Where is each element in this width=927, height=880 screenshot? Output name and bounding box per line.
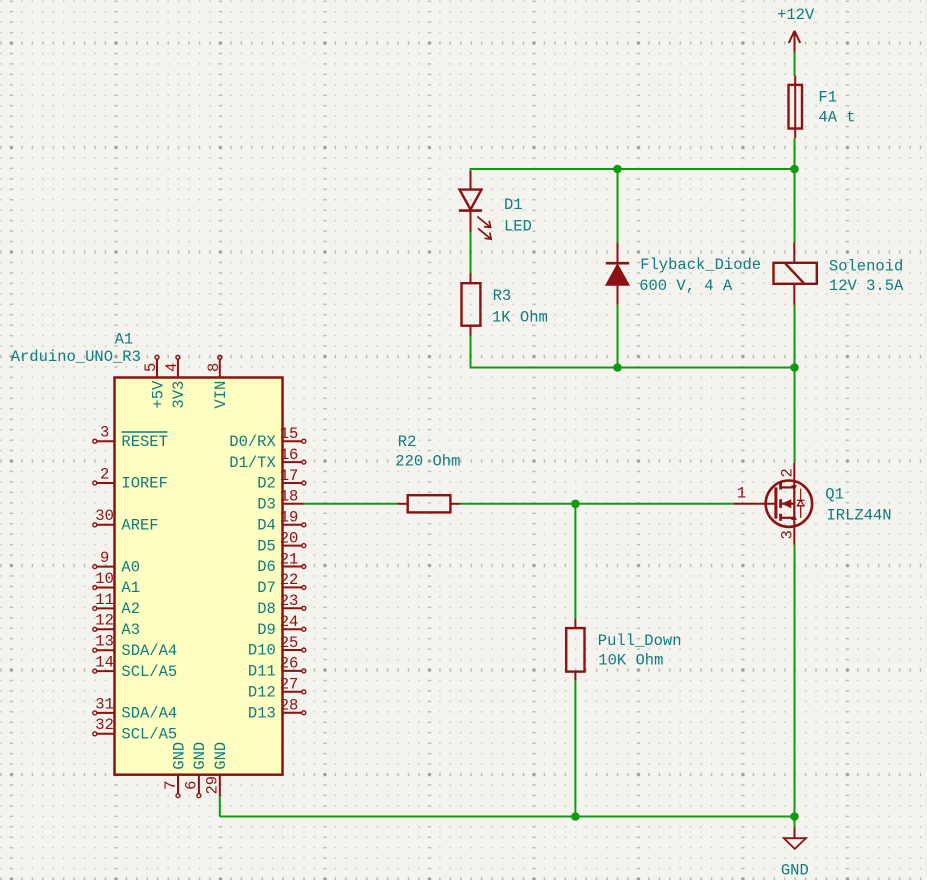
svg-text:32: 32 (95, 716, 114, 734)
svg-text:13: 13 (95, 633, 114, 651)
svg-text:D1/TX: D1/TX (229, 454, 276, 472)
wire J5 to pull-down (574, 504, 576, 619)
svg-text:D13: D13 (248, 704, 276, 722)
pin 16 D1/TX (283, 460, 306, 464)
svg-text:17: 17 (280, 467, 299, 485)
pin 11 A2 (93, 606, 115, 610)
wire bottom pin29 to J7 (220, 816, 576, 818)
wire J6 to GND (794, 817, 796, 829)
svg-text:Arduino_UNO_R3: Arduino_UNO_R3 (11, 348, 141, 366)
pin 31 SDA/A4 (93, 711, 115, 715)
svg-text:RESET: RESET (121, 433, 168, 451)
pin 9 A0 (93, 565, 115, 569)
svg-text:19: 19 (280, 509, 299, 527)
svg-text:GND: GND (781, 861, 809, 879)
wire top rail J1 to J2 (618, 168, 795, 170)
pin 22 D7 (283, 585, 306, 589)
svg-text:16: 16 (280, 446, 299, 464)
svg-text:D4: D4 (257, 517, 276, 535)
svg-text:5: 5 (142, 363, 160, 372)
svg-text:25: 25 (280, 634, 299, 652)
junction J6 (790, 812, 799, 821)
pin 6 GND (197, 775, 201, 798)
wire top rail D1 to junction J1 (471, 168, 618, 170)
svg-text:22: 22 (280, 571, 299, 589)
pin 12 A3 (93, 627, 115, 631)
pin 26 D11 (283, 669, 306, 673)
pin 14 SCL/A5 (93, 669, 115, 673)
svg-text:7: 7 (162, 781, 180, 790)
pin 19 D4 (283, 523, 306, 527)
pin 10 A1 (93, 586, 115, 590)
svg-text:IOREF: IOREF (121, 475, 168, 493)
svg-text:4A t: 4A t (818, 109, 855, 127)
pin 24 D9 (283, 627, 306, 631)
svg-text:SCL/A5: SCL/A5 (121, 663, 177, 681)
svg-text:GND: GND (170, 742, 188, 770)
pin 18 D3 (283, 503, 304, 505)
pin 5 +5V (155, 355, 159, 377)
pin 30 AREF (93, 523, 115, 527)
svg-text:A3: A3 (121, 621, 140, 639)
wire J4 to Q1 drain (794, 368, 796, 463)
svg-text:D1: D1 (504, 196, 523, 214)
transistor Q1 IRLZ44N (734, 463, 812, 545)
svg-text:IRLZ44N: IRLZ44N (827, 506, 892, 524)
wire J5 to Q1 gate (575, 503, 733, 505)
svg-text:Solenoid: Solenoid (829, 258, 903, 276)
svg-text:26: 26 (280, 655, 299, 673)
svg-text:24: 24 (280, 613, 299, 631)
svg-text:A1: A1 (115, 330, 134, 348)
wire J2 to solenoid (794, 169, 796, 242)
wire bottom rail R3 to J3 (471, 367, 618, 369)
wire corner to LED D1 (470, 168, 472, 190)
svg-text:1: 1 (737, 485, 746, 503)
svg-text:D9: D9 (257, 621, 276, 639)
svg-text:27: 27 (280, 676, 299, 694)
resistor R3 (462, 273, 481, 335)
svg-text:D8: D8 (257, 600, 276, 618)
wire R3 to bottom rail (470, 335, 472, 368)
junction J5 (571, 500, 580, 509)
svg-text:R3: R3 (493, 287, 512, 305)
svg-text:3: 3 (100, 424, 109, 442)
svg-text:VIN: VIN (212, 381, 230, 409)
svg-text:D12: D12 (248, 684, 276, 702)
svg-text:21: 21 (280, 550, 299, 568)
RESET overline (121, 431, 167, 433)
pin 29 GND (219, 775, 221, 796)
module A1 Arduino_UNO_R3 body (115, 378, 283, 775)
svg-text:+5V: +5V (149, 380, 167, 409)
svg-text:SCL/A5: SCL/A5 (121, 726, 177, 744)
pin 8 VIN (218, 355, 222, 377)
wire bottom J7 to J6 (575, 816, 794, 818)
svg-text:2: 2 (100, 465, 109, 483)
svg-text:D11: D11 (248, 663, 276, 681)
svg-text:10: 10 (95, 570, 114, 588)
svg-text:GND: GND (191, 742, 209, 770)
svg-text:D7: D7 (257, 579, 276, 597)
wire +12V to F1 (794, 53, 796, 76)
svg-text:SDA/A4: SDA/A4 (121, 642, 177, 660)
resistor Pull_Down (566, 619, 584, 680)
svg-text:+12V: +12V (777, 6, 815, 24)
junction J1 (613, 165, 622, 174)
svg-text:A1: A1 (121, 579, 140, 597)
svg-text:A0: A0 (121, 558, 140, 576)
wire R2 to J5 (460, 503, 575, 505)
svg-text:Q1: Q1 (825, 486, 844, 504)
svg-text:Pull_Down: Pull_Down (598, 632, 682, 650)
junction J2 (790, 165, 799, 174)
svg-text:LED: LED (504, 218, 532, 236)
svg-text:1K Ohm: 1K Ohm (492, 309, 548, 327)
svg-text:Flyback_Diode: Flyback_Diode (640, 256, 761, 274)
pin 28 D13 (283, 711, 306, 715)
svg-text:12: 12 (95, 612, 114, 630)
pin 23 D8 (283, 606, 306, 610)
svg-text:D6: D6 (257, 558, 276, 576)
svg-text:31: 31 (95, 695, 114, 713)
pin 13 SDA/A4 (93, 648, 115, 652)
pin 17 D2 (283, 481, 306, 485)
wire flyback diode to J3 (617, 305, 619, 368)
svg-text:R2: R2 (398, 433, 417, 451)
diode Flyback_Diode (606, 243, 629, 305)
pin 2 IOREF (93, 481, 115, 485)
pin 32 SCL/A5 (93, 732, 115, 736)
fuse F1 (789, 76, 803, 138)
svg-text:220 Ohm: 220 Ohm (395, 452, 460, 470)
junction J7 (571, 812, 580, 821)
wire F1 to node T1 (794, 138, 796, 169)
svg-text:2: 2 (779, 468, 797, 477)
svg-text:AREF: AREF (121, 517, 158, 535)
svg-text:20: 20 (280, 529, 299, 547)
power symbol +12V (789, 31, 800, 53)
resistor R2 (398, 495, 460, 512)
svg-text:3V3: 3V3 (170, 381, 188, 409)
pin 21 D6 (283, 565, 306, 569)
wire LED D1 to R3 (470, 232, 472, 274)
svg-text:6: 6 (183, 781, 201, 790)
svg-text:28: 28 (280, 697, 299, 715)
svg-text:SDA/A4: SDA/A4 (121, 705, 177, 723)
wire pin29 down (219, 796, 221, 817)
svg-text:D2: D2 (257, 475, 276, 493)
svg-text:30: 30 (95, 507, 114, 525)
ground GND (784, 828, 806, 849)
svg-text:D5: D5 (257, 537, 276, 555)
wire bottom rail J3 to J4 (618, 367, 795, 369)
wire solenoid to J4 (794, 305, 796, 368)
svg-text:14: 14 (95, 654, 114, 672)
svg-text:18: 18 (280, 488, 299, 506)
pin 4 3V3 (176, 355, 180, 377)
svg-text:23: 23 (280, 592, 299, 610)
svg-text:10K Ohm: 10K Ohm (598, 652, 663, 670)
svg-text:9: 9 (100, 549, 109, 567)
svg-text:12V 3.5A: 12V 3.5A (829, 277, 904, 295)
svg-text:11: 11 (95, 591, 114, 609)
svg-text:D3: D3 (257, 496, 276, 514)
pin 25 D10 (283, 648, 306, 652)
svg-text:GND: GND (212, 742, 230, 770)
pin 20 D5 (283, 544, 306, 548)
svg-text:15: 15 (280, 425, 299, 443)
svg-text:600 V, 4 A: 600 V, 4 A (639, 277, 733, 295)
wire pull-down to J7 (574, 680, 576, 816)
wire Q1 source to J6 (794, 545, 796, 817)
svg-text:4: 4 (163, 363, 181, 372)
wire D3 to R2 (304, 503, 398, 505)
svg-text:F1: F1 (818, 88, 837, 106)
svg-text:D10: D10 (248, 642, 276, 660)
LED D1 (459, 171, 491, 239)
junction J4 (790, 363, 799, 372)
pin 27 D12 (283, 690, 306, 694)
svg-text:8: 8 (205, 363, 223, 372)
wire J1 to flyback diode (617, 169, 619, 243)
svg-text:A2: A2 (121, 600, 140, 618)
pin 7 GND (176, 775, 180, 798)
pin 3 RESET (93, 439, 115, 443)
svg-text:D0/RX: D0/RX (229, 433, 276, 451)
solenoid L1 (774, 242, 817, 304)
svg-text:3: 3 (779, 530, 797, 539)
pin 15 D0/RX (283, 439, 306, 443)
junction J3 (613, 363, 622, 372)
svg-text:29: 29 (204, 776, 222, 795)
